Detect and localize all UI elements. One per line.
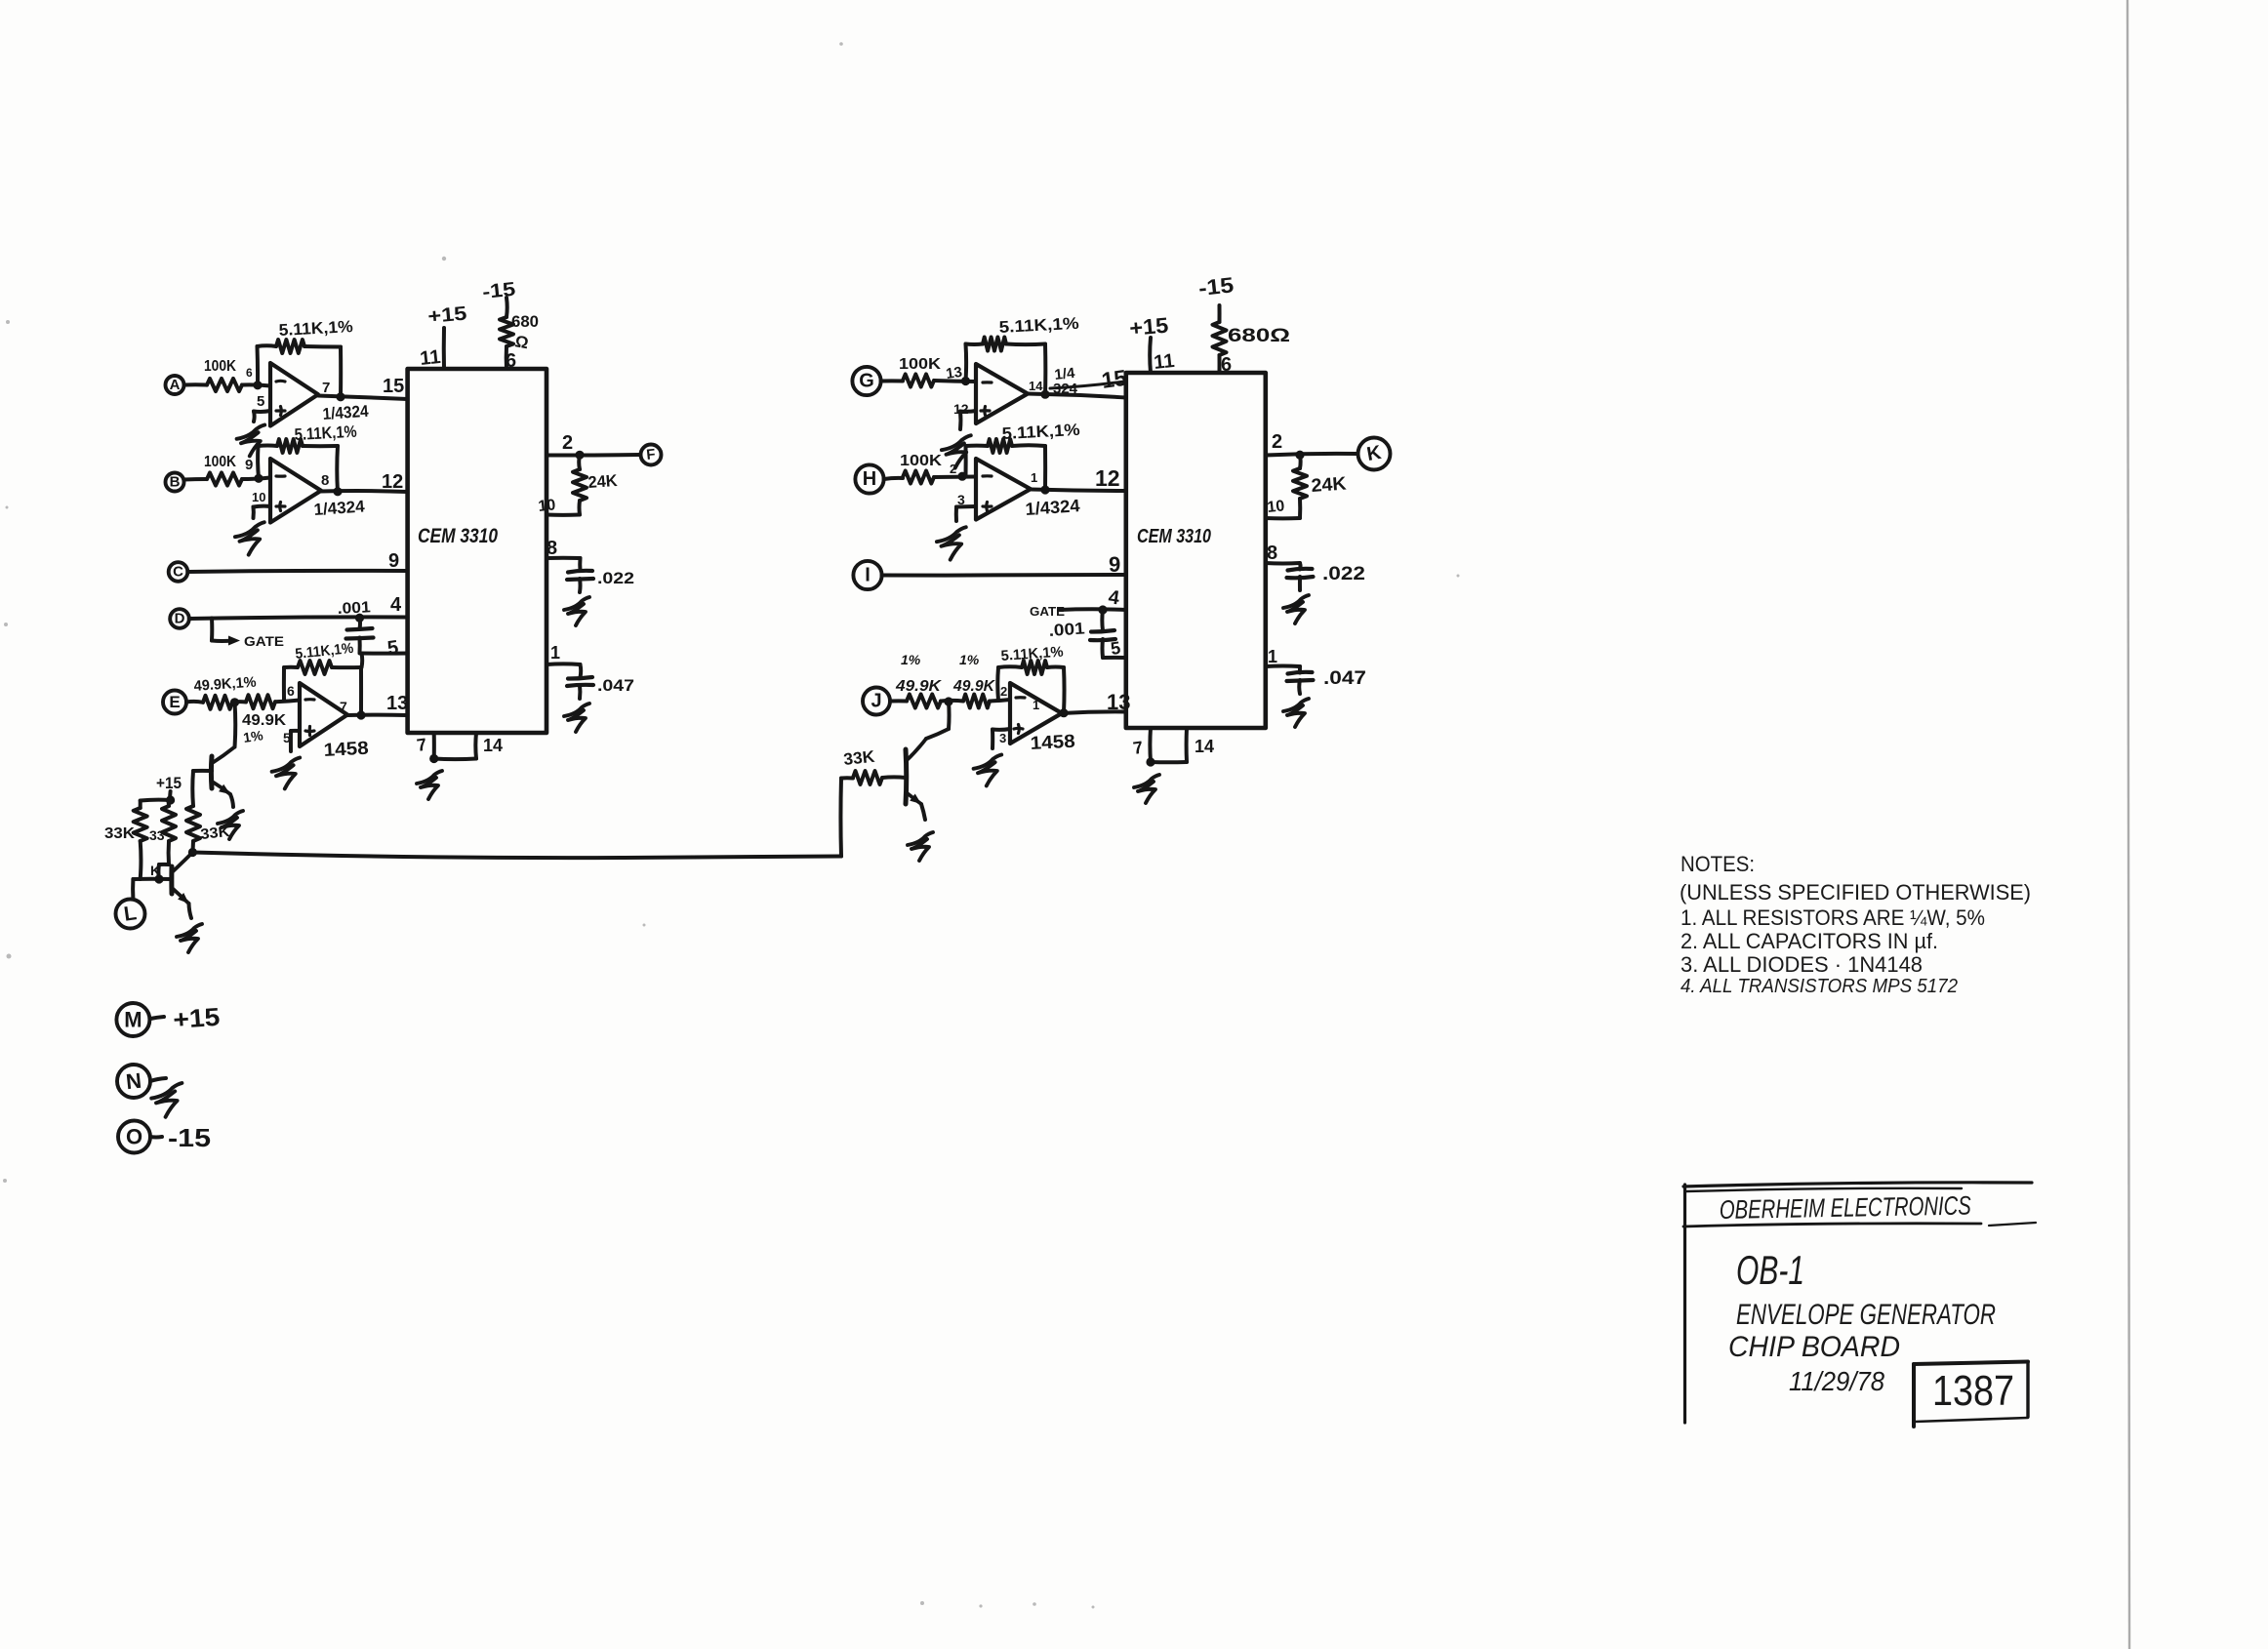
node K (output connector) <box>1358 438 1391 470</box>
wire R3 to U2 inverting input <box>242 478 270 480</box>
resistor R11 100K <box>899 356 942 387</box>
wire U1 feedback loop <box>258 345 342 397</box>
pin label 8 (left) <box>547 538 557 559</box>
svg-text:14: 14 <box>1029 379 1043 393</box>
svg-text:2: 2 <box>950 462 956 476</box>
svg-text:5.11K,1%: 5.11K,1% <box>998 314 1079 337</box>
pin label 2 (U6) <box>950 462 956 476</box>
wire U7 feedback loop <box>997 666 1064 712</box>
label U3 1458 <box>323 739 369 761</box>
svg-text:100K: 100K <box>204 358 236 375</box>
ground at U7 + <box>974 755 1002 786</box>
svg-text:3. ALL DIODES · 1N4148: 3. ALL DIODES · 1N4148 <box>1681 952 1923 977</box>
svg-text:O: O <box>126 1125 142 1149</box>
svg-text:14: 14 <box>483 736 503 755</box>
wire O dash <box>150 1135 162 1139</box>
wire R9 to base rail <box>158 865 169 879</box>
svg-text:5: 5 <box>1110 638 1122 659</box>
svg-text:8: 8 <box>321 472 329 489</box>
svg-text:.001: .001 <box>337 599 371 618</box>
svg-text:49.9K,1%: 49.9K,1% <box>193 674 257 695</box>
wire U7 output to pin 13 <box>1059 708 1125 717</box>
label +15 at M <box>172 1002 221 1034</box>
scan specks <box>3 42 1460 1608</box>
ground at pin 7 (right) <box>1134 775 1159 803</box>
svg-text:E: E <box>169 693 180 711</box>
svg-text:L: L <box>123 902 139 926</box>
capacitor C6 .022 (right) <box>1287 569 1314 590</box>
svg-text:33K: 33K <box>842 747 876 769</box>
svg-text:3: 3 <box>999 731 1006 745</box>
transistor Q1 <box>211 703 235 794</box>
svg-text:+15: +15 <box>427 303 468 328</box>
pin label 15 (left) <box>383 376 404 397</box>
notes line 1 <box>1681 905 1985 930</box>
svg-text:1/4324: 1/4324 <box>1025 496 1080 519</box>
pin label 8 (right) <box>1267 543 1277 564</box>
wire U3 feedback loop <box>284 667 361 715</box>
pin label 7 (left) <box>416 735 428 755</box>
svg-text:1: 1 <box>1031 470 1037 485</box>
title envelope generator <box>1736 1299 1996 1331</box>
wire Q3 emitter to ground <box>921 804 925 820</box>
svg-text:K: K <box>1365 442 1384 465</box>
node O (-15 supply) <box>118 1121 150 1153</box>
resistor R19 680 ohm (left) <box>500 298 513 369</box>
resistor R9 33K <box>149 800 176 878</box>
op-amp U2 (1/4 324) <box>245 457 329 523</box>
pin label 5 (right) <box>1110 638 1122 659</box>
svg-text:G: G <box>859 371 874 392</box>
label U7 1458 <box>1030 732 1075 754</box>
resistor R21 680 ohm (right) <box>1213 305 1227 373</box>
pin label 10 (left) <box>538 497 557 515</box>
pin label 10 (right) <box>1267 498 1286 516</box>
svg-text:NOTES:: NOTES: <box>1681 852 1755 876</box>
label 24K (right) <box>1311 474 1348 497</box>
svg-text:5: 5 <box>386 637 400 660</box>
pin label 4 (left) <box>390 594 402 616</box>
wire N stub <box>150 1078 166 1081</box>
svg-text:2: 2 <box>1000 684 1007 699</box>
wire A to R1 <box>184 382 208 386</box>
pin label 6 (left) <box>506 350 516 372</box>
svg-text:5.11K,1%: 5.11K,1% <box>278 317 353 340</box>
svg-text:33K: 33K <box>200 824 231 843</box>
resistor R18 33K <box>841 747 906 784</box>
capacitor C3 .047 (left) <box>567 677 593 699</box>
svg-text:11: 11 <box>419 346 441 370</box>
pin label 14 (left) <box>483 736 503 755</box>
transistor Q2 <box>172 853 193 905</box>
svg-text:ENVELOPE GENERATOR: ENVELOPE GENERATOR <box>1736 1299 1996 1331</box>
svg-text:7: 7 <box>1132 738 1145 758</box>
pin label 1 (left) <box>550 643 560 663</box>
wire G to R11 <box>881 379 903 382</box>
pin label 11 (right) <box>1153 350 1175 374</box>
ground at C7 <box>1283 699 1309 727</box>
wire pin 2 to K <box>1266 451 1357 460</box>
ground at Q3 emitter <box>908 832 933 861</box>
wire to L <box>131 879 135 900</box>
label U1 1/4324 <box>322 402 370 423</box>
ground at U5 + <box>942 435 971 467</box>
svg-text:-15: -15 <box>481 279 516 303</box>
label .047 (left) <box>597 676 634 695</box>
node junction J <box>944 697 952 705</box>
svg-text:5.11K,1%: 5.11K,1% <box>295 640 354 663</box>
svg-text:10: 10 <box>1267 498 1286 516</box>
svg-text:1/4324: 1/4324 <box>322 402 370 423</box>
node B (input connector) <box>166 473 184 492</box>
svg-text:OBERHEIM ELECTRONICS: OBERHEIM ELECTRONICS <box>1720 1191 1971 1225</box>
label -15 at O <box>168 1123 211 1152</box>
label 24K (left) <box>587 471 619 492</box>
label +15 (left chip) <box>427 303 468 328</box>
svg-text:49.9K: 49.9K <box>895 678 943 695</box>
wire U6 + input stub <box>956 506 976 521</box>
svg-text:1. ALL RESISTORS ARE ¼W, 5%: 1. ALL RESISTORS ARE ¼W, 5% <box>1681 905 1985 930</box>
svg-text:6: 6 <box>506 350 516 372</box>
wire pin 2 to F <box>547 451 640 460</box>
svg-text:1%: 1% <box>959 652 980 667</box>
resistor R20 24K (left) <box>573 455 587 514</box>
resistor R22 24K (right) <box>1293 455 1307 518</box>
resistor R10 33K <box>186 771 230 853</box>
notes line unless <box>1680 880 2031 905</box>
IC U4 CEM 3310 (left) <box>408 369 547 733</box>
wire pin 1 (left) <box>547 664 581 677</box>
svg-text:14: 14 <box>1195 737 1214 756</box>
pin label 12 (left) <box>382 471 403 493</box>
wire pin 8 (left) <box>547 558 581 571</box>
capacitor C5 .001 (right) <box>1048 610 1115 658</box>
resistor R3 100K <box>204 454 242 486</box>
svg-text:1: 1 <box>550 643 560 663</box>
wire base rail <box>133 874 172 883</box>
wire I to pin 9 <box>882 573 1126 578</box>
op-amp U3 (1458) <box>283 683 347 746</box>
label 680 ohm (left) <box>511 312 539 352</box>
capacitor C1 .001 <box>337 599 373 653</box>
resistor R13 100K <box>900 453 943 484</box>
ground at U1 + <box>237 425 265 457</box>
ground at Q1 emitter <box>218 811 243 839</box>
op-amp U7 (1458) <box>999 683 1062 745</box>
resistor R7 5.11K feedback U3 <box>295 640 354 674</box>
wire U3 output to pin 13 <box>347 710 408 719</box>
wire U5 output to pin 15 <box>1028 390 1126 399</box>
svg-text:1/4324: 1/4324 <box>313 497 366 519</box>
svg-text:1387: 1387 <box>1932 1367 2014 1415</box>
node J (input connector) <box>863 688 890 715</box>
notes line 2 <box>1681 929 1938 953</box>
node A (input connector) <box>166 376 184 394</box>
wire H to R13 <box>884 478 903 479</box>
svg-text:1458: 1458 <box>323 739 369 761</box>
wire long rail to right section <box>192 853 841 859</box>
pin label 13 (left) <box>386 693 408 714</box>
wire U2 + input stub <box>254 506 271 518</box>
svg-text:1%: 1% <box>901 652 921 667</box>
resistor R1 100K <box>204 358 242 391</box>
wire U1 + input stub <box>254 411 270 422</box>
resistor R4 5.11K feedback U2 <box>277 422 357 453</box>
svg-text:4: 4 <box>1107 586 1121 609</box>
node E (input connector) <box>163 691 186 714</box>
notes heading <box>1681 852 1755 876</box>
transistor Q3 <box>906 702 950 804</box>
svg-text:-15: -15 <box>1197 272 1235 301</box>
wire J to R15 <box>890 699 907 703</box>
svg-text:12: 12 <box>382 471 403 493</box>
wire pins 7-14 (right) <box>1146 728 1187 767</box>
IC U8 CEM 3310 (right) <box>1126 373 1266 728</box>
svg-text:8: 8 <box>1267 543 1277 564</box>
label U6 1/4324 <box>1025 496 1080 519</box>
wire B to R3 <box>184 477 208 482</box>
svg-text:2: 2 <box>1272 431 1282 453</box>
node L (connector) <box>116 900 145 929</box>
wire pin 10 (left) <box>547 513 580 517</box>
pin label 13 (U5) <box>945 364 963 382</box>
svg-text:5.11K,1%: 5.11K,1% <box>294 422 357 444</box>
ground at U3 + <box>272 758 301 789</box>
wire M dash <box>150 1017 164 1019</box>
node junction B-feedback <box>254 474 263 483</box>
svg-text:10: 10 <box>538 497 557 515</box>
svg-text:I: I <box>865 565 871 586</box>
resistor R17 5.11K feedback U7 <box>1000 644 1064 674</box>
svg-text:6: 6 <box>287 683 295 699</box>
pin label 9 (left) <box>388 550 399 572</box>
wire E to R5 <box>186 700 203 704</box>
wire U6 feedback loop <box>966 445 1046 490</box>
wire U1 output to pin 15 <box>318 392 408 401</box>
wire R1 to U1 inverting input <box>242 384 270 385</box>
svg-text:680Ω: 680Ω <box>1228 326 1290 346</box>
svg-text:680: 680 <box>511 312 539 331</box>
wire +15 to rail <box>141 791 176 805</box>
svg-text:5: 5 <box>257 393 264 410</box>
wire junction to R16 <box>941 699 963 704</box>
svg-text:100K: 100K <box>900 453 943 469</box>
wire pins 7-14 (left) <box>429 733 476 763</box>
wire Q1 emitter to ground <box>230 794 233 807</box>
resistor R6 49.9K <box>242 695 286 745</box>
node G (input connector) <box>852 367 880 395</box>
svg-text:24K: 24K <box>587 471 619 492</box>
resistor R15 49.9K <box>895 652 943 708</box>
wire U6 output to pin 12 <box>1031 485 1126 494</box>
svg-text:H: H <box>863 468 876 490</box>
op-amp U5 (1/4 324) <box>953 364 1043 423</box>
ground at U6 + <box>937 527 966 559</box>
wire Q2 emitter to ground <box>189 904 192 918</box>
node H (input connector) <box>855 464 883 493</box>
svg-text:.047: .047 <box>597 676 634 695</box>
wire Q1 base <box>193 769 212 773</box>
ground at pin 7 <box>417 771 442 799</box>
notes line 4 <box>1681 976 1958 997</box>
svg-text:.001: .001 <box>1048 619 1085 640</box>
node I (input connector) <box>853 561 881 589</box>
pin label 12 (right) <box>1095 465 1120 491</box>
pin label 7 (right) <box>1132 738 1145 758</box>
svg-text:1: 1 <box>1268 647 1277 666</box>
pin label 2 (left) <box>562 432 573 454</box>
svg-text:9: 9 <box>1109 552 1120 577</box>
pin label 1 (right) <box>1268 647 1277 666</box>
notes line 3 <box>1681 952 1923 977</box>
node junction long rail <box>188 848 197 857</box>
ground at U2 + <box>235 522 264 554</box>
svg-text:4: 4 <box>390 594 402 616</box>
svg-text:8: 8 <box>547 538 557 559</box>
svg-text:1458: 1458 <box>1030 732 1075 754</box>
pin label 15 (right) <box>1100 365 1128 393</box>
label -15 (left chip) <box>481 279 516 303</box>
svg-text:6: 6 <box>1221 354 1232 376</box>
svg-text:11/29/78: 11/29/78 <box>1789 1366 1884 1396</box>
svg-text:+15: +15 <box>1128 313 1169 341</box>
label -15 (right chip) <box>1197 272 1235 301</box>
svg-text:.047: .047 <box>1323 668 1366 689</box>
pin label 14 (right) <box>1195 737 1214 756</box>
drawing number box <box>1914 1362 2028 1428</box>
op-amp U6 (1/4 324) <box>957 459 1037 520</box>
svg-text:9: 9 <box>245 457 253 473</box>
svg-text:CEM 3310: CEM 3310 <box>418 525 498 547</box>
label GATE (left) <box>244 633 284 649</box>
svg-text:100K: 100K <box>204 454 236 470</box>
label U5 1/4 324 <box>1050 365 1124 397</box>
svg-text:5.11K,1%: 5.11K,1% <box>1001 421 1080 443</box>
label .047 (right) <box>1323 668 1366 689</box>
svg-text:33K: 33K <box>104 825 135 842</box>
wire U2 feedback loop <box>258 446 338 493</box>
wire pin 11 +15 (left) <box>442 328 446 369</box>
svg-text:13: 13 <box>945 364 963 382</box>
svg-text:+15: +15 <box>172 1002 221 1034</box>
op-amp U1 (1/4 324) <box>246 363 330 426</box>
svg-text:1: 1 <box>1033 698 1039 712</box>
resistor R8 33K <box>104 801 147 880</box>
svg-text:M: M <box>124 1008 142 1032</box>
wire R11 to U5 inverting input <box>934 381 976 382</box>
svg-text:CEM 3310: CEM 3310 <box>1137 526 1211 547</box>
label .022 (left) <box>597 569 634 587</box>
node M (+15 supply) <box>116 1003 149 1036</box>
title OB-1 <box>1736 1247 1804 1293</box>
svg-text:(UNLESS SPECIFIED OTHERWISE): (UNLESS SPECIFIED OTHERWISE) <box>1680 880 2031 905</box>
svg-text:2. ALL CAPACITORS IN µf.: 2. ALL CAPACITORS IN µf. <box>1681 929 1938 953</box>
wire U3 + input stub <box>291 731 300 751</box>
svg-text:11: 11 <box>1153 350 1175 374</box>
wire U5 + input stub <box>960 411 976 429</box>
svg-text:.022: .022 <box>597 569 634 587</box>
svg-text:49.9K: 49.9K <box>242 712 286 729</box>
wire pin 5 (right) <box>1103 656 1126 660</box>
node N (ground) <box>117 1065 150 1098</box>
title chip board <box>1728 1331 1900 1363</box>
label U2 1/4324 <box>313 497 366 519</box>
pin label 4 (right) <box>1107 586 1121 609</box>
capacitor C7 .047 (right) <box>1287 672 1314 694</box>
node D (input connector) <box>170 609 189 628</box>
svg-text:5.11K,1%: 5.11K,1% <box>1000 644 1064 664</box>
label GATE (right) <box>1030 604 1065 619</box>
svg-text:7: 7 <box>416 735 428 755</box>
svg-text:100K: 100K <box>899 356 942 373</box>
node F (output connector) <box>641 445 662 465</box>
wire R13 to U6 inverting input <box>934 472 976 481</box>
title company <box>1720 1191 1971 1225</box>
label .022 (right) <box>1322 564 1365 584</box>
wire D to pin 4 <box>189 614 408 623</box>
node junction E <box>230 698 239 706</box>
node junction A-feedback <box>253 381 262 389</box>
pin label 5 (left) <box>386 637 400 660</box>
svg-text:33: 33 <box>149 827 165 843</box>
svg-text:.022: .022 <box>1322 564 1365 584</box>
svg-text:49.9K: 49.9K <box>952 678 995 695</box>
pin label 11 (left) <box>419 346 441 370</box>
wire U2 output to pin 12 <box>321 487 408 496</box>
wire gate to pin 4 (right) <box>1059 605 1126 614</box>
wire U5 feedback loop <box>961 344 1045 396</box>
svg-text:OB-1: OB-1 <box>1736 1247 1804 1293</box>
svg-text:12: 12 <box>1095 465 1120 491</box>
wire pin 11 +15 (right) <box>1148 338 1153 373</box>
ground at C6 <box>1283 595 1309 623</box>
svg-text:A: A <box>170 377 181 393</box>
resistor R14 5.11K feedback U6 <box>988 421 1080 453</box>
svg-text:N: N <box>125 1068 142 1095</box>
svg-text:F: F <box>646 446 657 463</box>
pin label 13 (right) <box>1107 690 1130 714</box>
ground at N <box>151 1083 182 1117</box>
svg-text:2: 2 <box>562 432 573 454</box>
svg-text:D: D <box>175 611 185 627</box>
svg-text:CHIP BOARD: CHIP BOARD <box>1728 1331 1900 1363</box>
wire pin 8 (right) <box>1266 563 1301 570</box>
pin label 9 (right) <box>1109 552 1120 577</box>
svg-text:7: 7 <box>322 380 330 396</box>
svg-text:7: 7 <box>340 699 347 714</box>
svg-text:13: 13 <box>386 693 408 714</box>
wire R6 to U3 inverting input <box>275 701 300 703</box>
resistor R2 5.11K feedback U1 <box>276 317 353 353</box>
ground at Q2 emitter <box>177 924 202 952</box>
wire U7 + input stub <box>992 729 1010 748</box>
wire C to pin 9 <box>187 571 407 572</box>
svg-text:B: B <box>170 474 181 491</box>
title block border <box>1683 1183 2036 1423</box>
svg-text:9: 9 <box>388 550 399 572</box>
wire D gate branch <box>212 619 240 646</box>
wire pin 1 (right) <box>1266 665 1300 672</box>
label +15 (bias) <box>156 774 182 792</box>
pin label 6 (right) <box>1221 354 1232 376</box>
title date <box>1789 1366 1884 1396</box>
ground at C2 <box>564 597 589 625</box>
label +15 (right chip) <box>1128 313 1169 341</box>
svg-text:J: J <box>871 691 881 712</box>
svg-text:+15: +15 <box>156 774 182 792</box>
label 680 ohm (right) <box>1228 326 1290 346</box>
svg-text:4. ALL TRANSISTORS MPS 5172: 4. ALL TRANSISTORS MPS 5172 <box>1681 976 1958 997</box>
